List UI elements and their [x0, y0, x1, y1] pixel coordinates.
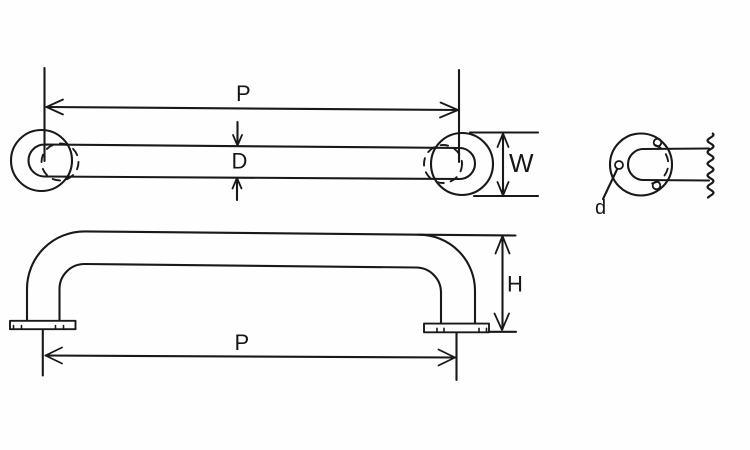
outer tube profile [27, 231, 475, 323]
D dimension upper arrow [236, 122, 238, 144]
svg-text:W: W [509, 148, 534, 178]
end-view flange circle [610, 134, 672, 196]
leader line for d [603, 170, 617, 200]
H top extension line [419, 234, 516, 237]
right base plate [424, 324, 489, 333]
H upper arrowhead [496, 236, 510, 254]
H dimension line [501, 237, 503, 330]
W bottom extension line [474, 195, 538, 197]
dimension line P (top view) [47, 107, 459, 110]
left hidden (dashed) circle [42, 144, 79, 181]
svg-text:D: D [232, 149, 248, 174]
svg-text:P: P [236, 81, 251, 106]
right hidden (dashed) circle [424, 145, 462, 183]
bottom P left extension line [42, 330, 44, 376]
H bottom extension line [490, 331, 517, 333]
W dimension line [502, 134, 504, 195]
end-view tube with rounded cap [628, 149, 709, 181]
mounting hole top [654, 139, 662, 147]
mounting hole bottom [653, 182, 661, 190]
inner tube profile [60, 264, 442, 324]
grab-bar tube outline (stadium shape) [29, 145, 476, 180]
W top extension line [470, 131, 538, 133]
bottom dimension line P [46, 356, 456, 358]
arrowhead left of P [47, 100, 64, 115]
left flange outer circle [11, 130, 72, 191]
W lower arrowhead [498, 182, 509, 196]
svg-text:H: H [507, 272, 523, 297]
left extension line [43, 68, 45, 161]
H lower arrowhead [495, 314, 510, 331]
W upper arrowhead [498, 134, 509, 148]
arrowhead right of bottom P [439, 350, 456, 366]
mounting hole left [615, 161, 623, 169]
svg-text:P: P [235, 330, 250, 355]
arrowhead left of bottom P [46, 348, 63, 364]
left base plate [10, 321, 76, 329]
left plate hidden hole lines [13, 326, 15, 330]
break (wavy) line [708, 134, 714, 198]
right plate hidden hole lines [436, 328, 438, 332]
svg-text:d: d [595, 197, 606, 219]
right flange outer circle [431, 133, 493, 195]
arrowhead right of P [440, 103, 458, 118]
right extension line [458, 70, 460, 162]
bottom P right extension line [455, 333, 457, 380]
D dimension lower arrow [236, 180, 238, 200]
end-view hidden dashed circle (right arc) [649, 145, 668, 184]
